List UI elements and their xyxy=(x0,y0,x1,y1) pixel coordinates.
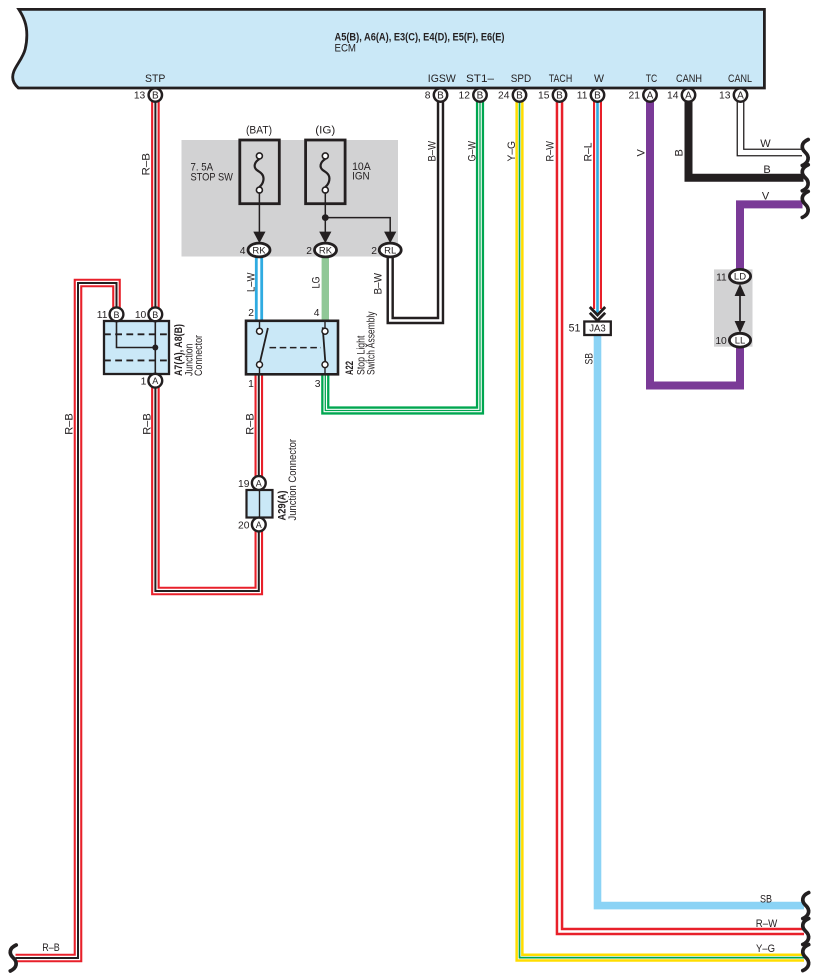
ECM pin 15 (B) xyxy=(538,88,566,101)
fuse F2 10A IGN xyxy=(306,140,346,204)
svg-text:STOP SW: STOP SW xyxy=(191,172,234,184)
wire G-W from ECM ST1- pin 12 to stop light switch pin 3 xyxy=(325,96,480,411)
svg-text:B–W: B–W xyxy=(373,272,385,294)
svg-text:Y–G: Y–G xyxy=(756,943,775,955)
svg-text:B: B xyxy=(763,164,770,176)
svg-text:2: 2 xyxy=(248,308,254,319)
ECM pin 8 (B) xyxy=(425,88,447,101)
svg-text:B: B xyxy=(477,91,484,102)
svg-text:B–W: B–W xyxy=(426,140,438,161)
svg-text:V: V xyxy=(636,149,648,157)
svg-text:B: B xyxy=(152,91,159,102)
svg-text:V: V xyxy=(762,190,770,202)
svg-text:B: B xyxy=(556,91,563,102)
wire V from right off-page to noise filter LD xyxy=(740,204,803,270)
svg-text:10: 10 xyxy=(715,336,727,347)
ECM pin 13 (A) xyxy=(719,88,747,101)
arrow link between LD and LL xyxy=(735,284,746,333)
fuse F1 7.5A STOP SW xyxy=(240,140,279,204)
svg-text:R–B: R–B xyxy=(141,413,153,435)
svg-text:B: B xyxy=(594,91,601,102)
break symbol R-W wire xyxy=(803,919,809,945)
svg-text:11: 11 xyxy=(577,91,588,102)
ECM pin 12 (B) xyxy=(459,88,487,101)
svg-text:R–W: R–W xyxy=(756,918,778,930)
junction node on fuse F2 output xyxy=(322,214,329,221)
svg-text:A: A xyxy=(256,520,262,530)
svg-text:10: 10 xyxy=(135,310,147,321)
svg-text:ST1–: ST1– xyxy=(466,73,494,85)
svg-text:R–B: R–B xyxy=(140,153,152,176)
wire B-W from ECM IGSW pin 8 to connector RL xyxy=(390,96,440,321)
svg-text:RK: RK xyxy=(319,245,333,256)
svg-text:LD: LD xyxy=(734,272,746,283)
svg-text:13: 13 xyxy=(134,91,146,102)
wire R-B from stop light switch pin 1 through A29 to junction connector pin 1 xyxy=(254,374,263,479)
svg-text:RL: RL xyxy=(384,245,396,256)
A29 pin 20 (A) xyxy=(238,518,266,532)
wire Y-G from ECM SPD pin 24 to lower-right off-page xyxy=(520,96,805,958)
svg-text:13: 13 xyxy=(719,91,731,102)
svg-text:4: 4 xyxy=(314,308,320,319)
svg-text:(BAT): (BAT) xyxy=(246,125,272,137)
svg-text:B: B xyxy=(152,310,158,320)
svg-text:IGN: IGN xyxy=(352,171,370,183)
A7/A8 pin 11 (B) xyxy=(97,307,124,321)
wire V from ECM TC pin 21 to noise filter LL xyxy=(650,96,740,386)
svg-text:21: 21 xyxy=(629,91,641,102)
svg-text:Junction Connector: Junction Connector xyxy=(287,439,299,521)
svg-text:CANL: CANL xyxy=(728,73,752,85)
ECM pin 24 (B) xyxy=(498,88,526,101)
svg-text:W: W xyxy=(594,73,604,85)
svg-text:24: 24 xyxy=(498,91,510,102)
svg-text:3: 3 xyxy=(315,379,321,390)
svg-text:Connector: Connector xyxy=(193,335,205,376)
svg-text:A: A xyxy=(737,91,744,102)
svg-text:(IG): (IG) xyxy=(315,125,335,137)
ECM pin 11 (B) xyxy=(577,88,604,101)
svg-text:B: B xyxy=(516,91,523,102)
svg-text:12: 12 xyxy=(459,91,471,102)
wire R-L from ECM W pin 11 to JA3 xyxy=(593,96,602,309)
svg-text:STP: STP xyxy=(145,73,165,85)
ECM box xyxy=(13,9,765,88)
wire fuse F1 output to connector RK pin 4 xyxy=(253,192,265,243)
svg-text:R–L: R–L xyxy=(582,143,594,162)
svg-text:TACH: TACH xyxy=(549,73,573,85)
wire branch to connector RL pin 2 xyxy=(325,218,396,244)
svg-text:B: B xyxy=(674,149,686,156)
break symbol SB wire xyxy=(803,893,809,919)
svg-text:JA3: JA3 xyxy=(589,324,606,335)
splice arrows into JA3 xyxy=(590,307,605,321)
wire R-L blue core tail at JA3 xyxy=(596,309,599,316)
svg-text:R–W: R–W xyxy=(544,140,556,161)
svg-text:Y–G: Y–G xyxy=(506,141,518,162)
fuse/relay gray block xyxy=(182,140,399,257)
connector RK pin 4 xyxy=(240,243,270,257)
svg-text:14: 14 xyxy=(667,91,679,102)
svg-text:Switch Assembly: Switch Assembly xyxy=(366,311,378,375)
break symbol R-B wire xyxy=(10,945,16,971)
break symbol V wire xyxy=(802,191,808,217)
ECM pin 13 (B) xyxy=(134,88,162,101)
svg-text:15: 15 xyxy=(538,91,550,102)
svg-text:8: 8 xyxy=(425,91,431,102)
svg-text:W: W xyxy=(760,138,771,150)
svg-text:TC: TC xyxy=(646,73,658,85)
svg-text:IGSW: IGSW xyxy=(428,73,456,85)
svg-text:B: B xyxy=(113,310,119,320)
ECM pin 21 (A) xyxy=(629,88,657,101)
noise filter gray block LD/LL xyxy=(714,269,753,346)
A7/A8 pin 1 (A) xyxy=(141,374,163,388)
junction connector A29(A) xyxy=(247,490,273,518)
svg-text:2: 2 xyxy=(371,246,377,257)
svg-text:11: 11 xyxy=(97,310,108,321)
wire W from ECM CANL pin 13 to right off-page xyxy=(741,96,803,153)
svg-text:A: A xyxy=(256,479,262,489)
connector RL pin 2 xyxy=(371,243,401,257)
svg-text:R–B: R–B xyxy=(245,413,257,435)
svg-text:R–B: R–B xyxy=(64,413,76,435)
connector RK pin 2 xyxy=(306,243,336,257)
break symbol W wire xyxy=(802,140,808,166)
stop light switch assembly A22 xyxy=(246,321,338,375)
svg-text:SB: SB xyxy=(760,893,772,905)
junction connector A7(A), A8(B) xyxy=(104,321,169,374)
svg-text:A: A xyxy=(685,91,692,102)
svg-text:20: 20 xyxy=(238,520,250,531)
wire R-B from junction connector pin 11 to lower-left off-page xyxy=(16,283,117,958)
svg-text:RK: RK xyxy=(252,245,266,256)
svg-text:A5(B), A6(A), E3(C), E4(D), E5: A5(B), A6(A), E3(C), E4(D), E5(F), E6(E) xyxy=(335,32,505,44)
wire L-W from connector RK 4 to stop light switch pin 2 xyxy=(255,250,263,322)
svg-text:L–W: L–W xyxy=(246,272,258,292)
A29 pin 19 (A) xyxy=(238,476,266,490)
svg-text:A: A xyxy=(152,376,158,386)
wire SB from JA3 to lower-right off-page xyxy=(598,336,805,906)
wire R-W from ECM TACH pin 15 to lower-right off-page xyxy=(560,96,805,932)
svg-text:2: 2 xyxy=(306,246,312,257)
svg-text:4: 4 xyxy=(240,246,246,257)
wire LG from connector RK 2 to stop light switch pin 4 xyxy=(322,250,329,322)
break symbol Y-G wire xyxy=(803,945,809,971)
svg-text:19: 19 xyxy=(238,479,250,490)
wire B from ECM CANH pin 14 to right off-page xyxy=(689,96,804,178)
break symbol B wire xyxy=(802,165,808,191)
svg-text:LG: LG xyxy=(310,277,322,289)
svg-text:G–W: G–W xyxy=(466,140,478,161)
connector LD pin 11 xyxy=(716,269,751,283)
junction JA3 pin 51 xyxy=(569,322,611,336)
svg-text:LL: LL xyxy=(735,336,746,347)
wire fuse F2 output to connector RK pin 2 xyxy=(319,192,331,243)
A7/A8 pin 10 (B) xyxy=(135,307,162,321)
wire R-B from ECM STP pin 13 xyxy=(151,96,160,310)
svg-text:A: A xyxy=(647,91,654,102)
wire R-B from A29 pin 20 to junction connector pin 1 xyxy=(155,385,258,591)
svg-text:51: 51 xyxy=(569,323,581,335)
svg-text:CANH: CANH xyxy=(676,73,702,85)
svg-text:11: 11 xyxy=(716,272,727,283)
ECM pin 14 (A) xyxy=(667,88,695,101)
svg-text:1: 1 xyxy=(248,379,254,390)
connector LL pin 10 xyxy=(715,333,750,347)
svg-text:SPD: SPD xyxy=(511,73,532,85)
svg-text:ECM: ECM xyxy=(335,43,357,55)
svg-text:SB: SB xyxy=(583,353,595,365)
svg-text:B: B xyxy=(437,91,444,102)
svg-text:R–B: R–B xyxy=(42,942,60,954)
svg-text:1: 1 xyxy=(141,377,147,388)
